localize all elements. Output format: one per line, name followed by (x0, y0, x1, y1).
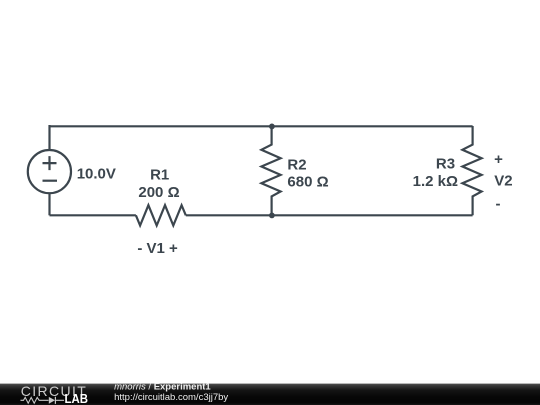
svg-text:1.2 kΩ: 1.2 kΩ (413, 173, 458, 190)
wire top horizontal (50, 125, 473, 127)
svg-text:200 Ω: 200 Ω (138, 184, 179, 201)
resistor R1 (136, 205, 186, 225)
voltage source minus symbol (43, 180, 58, 182)
node junction dot bottom of R2 (269, 213, 275, 219)
svg-text:+: + (494, 151, 503, 168)
svg-text:-: - (496, 196, 501, 213)
svg-text:R3: R3 (436, 155, 455, 172)
logo diode symbol (49, 397, 55, 404)
wire bottom right segment (186, 214, 473, 216)
resistor R3 (462, 126, 481, 215)
svg-text:LAB: LAB (65, 391, 89, 405)
svg-text:680 Ω: 680 Ω (287, 174, 328, 191)
footer bar (0, 384, 540, 405)
svg-text:10.0V: 10.0V (77, 166, 116, 183)
resistor R2 (261, 126, 280, 215)
wire left vertical bottom (48, 193, 50, 215)
logo resistor zigzag (21, 397, 49, 403)
svg-text:R1: R1 (150, 166, 169, 183)
node junction dot top of R2 (269, 124, 275, 130)
voltage source plus symbol (43, 156, 57, 170)
voltage source V source circle (28, 150, 71, 193)
svg-text:V2: V2 (494, 173, 512, 190)
wire bottom left segment (50, 214, 136, 216)
svg-text:http://circuitlab.com/c3jj7by: http://circuitlab.com/c3jj7by (114, 392, 228, 403)
wire left vertical top (48, 125, 50, 150)
svg-text:R2: R2 (287, 156, 306, 173)
svg-text:- V1 +: - V1 + (137, 240, 178, 257)
